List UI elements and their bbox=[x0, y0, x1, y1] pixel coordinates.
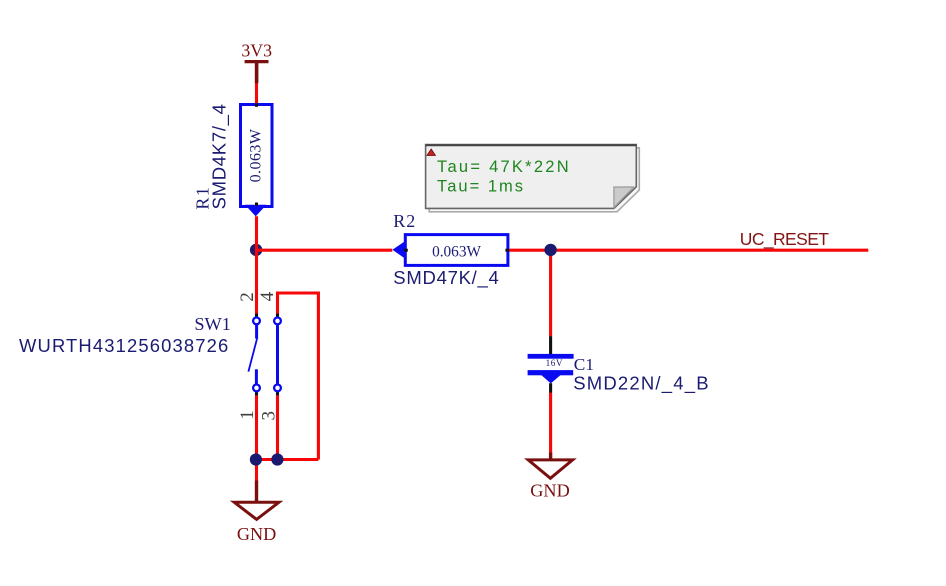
svg-text:SW1: SW1 bbox=[194, 314, 231, 334]
svg-text:3: 3 bbox=[258, 411, 279, 421]
svg-text:GND: GND bbox=[237, 524, 276, 544]
svg-text:0.063W: 0.063W bbox=[248, 128, 265, 182]
svg-text:WURTH431256038726: WURTH431256038726 bbox=[19, 335, 229, 356]
svg-text:C1: C1 bbox=[574, 355, 594, 374]
svg-text:SMD47K/_4: SMD47K/_4 bbox=[393, 267, 499, 289]
svg-text:16V: 16V bbox=[546, 358, 563, 368]
svg-text:UC_RESET: UC_RESET bbox=[740, 229, 829, 250]
svg-text:GND: GND bbox=[530, 480, 569, 500]
svg-text:2: 2 bbox=[237, 292, 258, 302]
svg-text:3V3: 3V3 bbox=[241, 40, 272, 60]
svg-text:1: 1 bbox=[237, 410, 258, 420]
svg-text:Tau= 47K*22N: Tau= 47K*22N bbox=[437, 158, 571, 176]
svg-text:SMD4K7/_4: SMD4K7/_4 bbox=[209, 103, 231, 209]
svg-text:Tau= 1ms: Tau= 1ms bbox=[437, 178, 525, 196]
svg-text:R2: R2 bbox=[393, 211, 416, 231]
svg-text:SMD22N/_4_B: SMD22N/_4_B bbox=[573, 372, 710, 394]
svg-text:4: 4 bbox=[257, 291, 278, 301]
svg-text:0.063W: 0.063W bbox=[432, 244, 481, 261]
